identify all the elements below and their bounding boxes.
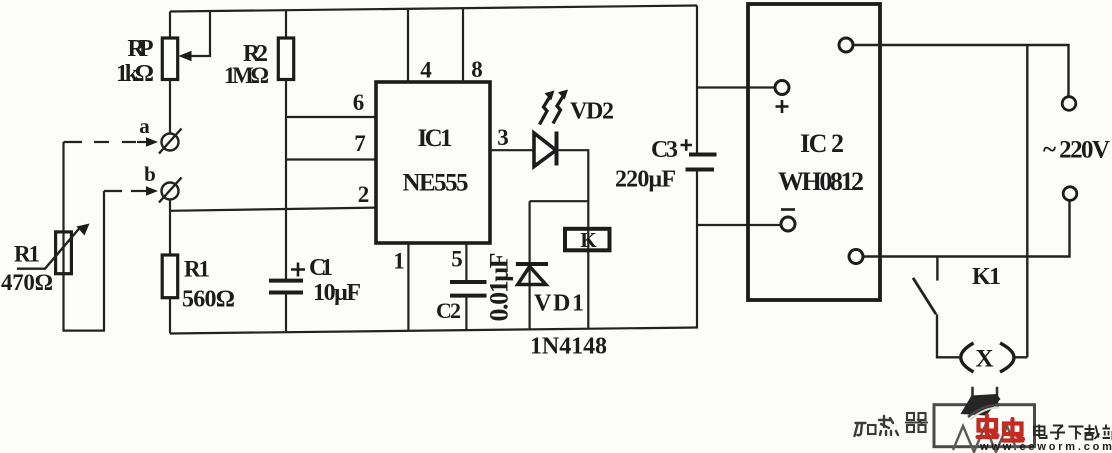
wire: AC top to mains upper — [853, 45, 1069, 97]
wire: VD1 branch top link — [530, 200, 589, 202]
svg-text:7: 7 — [354, 131, 366, 156]
wire: pin 5 — [465, 243, 467, 282]
label + (C3) — [681, 139, 693, 150]
wire: lamp to load branch — [1015, 356, 1027, 358]
capacitor C2 — [450, 282, 487, 331]
svg-text:X: X — [975, 346, 993, 373]
op IC1 NE555 box — [376, 82, 490, 243]
svg-text:K: K — [580, 228, 597, 252]
wire: bottom ground rail — [170, 328, 698, 334]
wire: pin 7 — [286, 158, 376, 160]
svg-text:4: 4 — [420, 58, 432, 83]
watermark 虫虫 — [978, 416, 1024, 441]
wire: R2 bottom to timing node / C1 — [285, 80, 287, 281]
resistor R2 — [278, 10, 293, 79]
svg-text:WH0812: WH0812 — [778, 167, 864, 196]
heater box — [934, 405, 1035, 447]
svg-text:5: 5 — [451, 247, 463, 272]
wire: link to contact b — [104, 190, 147, 192]
svg-text:VD1: VD1 — [534, 291, 584, 317]
capacitor C3 — [686, 6, 717, 328]
wire: pin 6 — [286, 116, 376, 118]
svg-text:C1: C1 — [309, 255, 333, 281]
wire: VD2 cathode down to relay and ground — [557, 150, 589, 329]
LED VD2 — [534, 132, 557, 167]
svg-text:470Ω: 470Ω — [1, 270, 53, 295]
terminal AC top of IC2 — [839, 38, 853, 52]
svg-text:6: 6 — [353, 90, 365, 115]
label 加热器 (heater) — [855, 413, 928, 436]
wire: pin 2 rail — [170, 208, 376, 211]
svg-text:8: 8 — [471, 57, 483, 82]
svg-text:www.eeworm.com: www.eeworm.com — [979, 441, 1112, 453]
LED arrows VD2 — [540, 90, 569, 125]
svg-text:R1: R1 — [14, 242, 40, 267]
wire: load branch vertical — [1026, 45, 1028, 357]
svg-text:1kΩ: 1kΩ — [116, 61, 154, 87]
svg-text:NE555: NE555 — [403, 170, 469, 197]
relay coil K — [565, 229, 610, 251]
wire: K1 to lamp — [937, 314, 959, 357]
svg-text:IC1: IC1 — [418, 125, 453, 152]
op IC2 WH0812 box — [748, 4, 880, 300]
wire: dashed link to contact a — [64, 141, 149, 143]
load lamp (X) — [961, 343, 1014, 372]
wire: C3 node to IC2 plus terminal — [697, 86, 775, 88]
wire: contact b to pin2 rail — [169, 200, 171, 211]
switch contact a — [159, 129, 182, 154]
svg-text:IC 2: IC 2 — [800, 129, 844, 158]
thermistor R1 470Ω with select loop — [17, 142, 104, 331]
heater element zigzag — [953, 426, 1016, 452]
terminal mains upper — [1062, 97, 1076, 111]
svg-text:1: 1 — [393, 249, 405, 274]
label + (C1) — [291, 263, 305, 277]
wire: pin 1 — [407, 243, 409, 331]
heater leads — [973, 387, 998, 405]
diode VD1 — [516, 201, 548, 330]
wire: top supply rail — [170, 6, 697, 12]
wire: pin 4 — [407, 9, 409, 82]
svg-text:a: a — [139, 114, 150, 138]
watermark logo cap — [961, 394, 1001, 416]
wire: C3 node to IC2 minus terminal — [697, 224, 781, 226]
svg-text:C3: C3 — [651, 137, 678, 163]
svg-text:1MΩ: 1MΩ — [224, 63, 269, 88]
terminal − of IC2 — [781, 217, 795, 231]
svg-text:b: b — [144, 162, 156, 186]
terminal mains lower — [1063, 187, 1077, 201]
terminal AC bottom of IC2 — [849, 250, 863, 264]
resistor R1 560Ω — [162, 211, 178, 334]
wire: AC bottom to mains lower — [863, 201, 1070, 257]
relay contact K1 — [913, 257, 937, 315]
svg-text:~ 220V: ~ 220V — [1043, 137, 1110, 164]
svg-text:0.01μF: 0.01μF — [485, 253, 514, 322]
svg-text:10μF: 10μF — [313, 280, 361, 306]
switch contact b — [159, 178, 182, 203]
svg-text:2: 2 — [358, 182, 370, 207]
wire: pin 8 — [462, 8, 464, 82]
wire: pin 3 — [490, 149, 534, 151]
svg-text:VD2: VD2 — [570, 99, 614, 125]
potentiometer RP — [162, 11, 210, 134]
svg-text:1N4148: 1N4148 — [530, 334, 607, 360]
svg-text:C2: C2 — [436, 298, 461, 323]
svg-text:220μF: 220μF — [615, 167, 676, 193]
svg-text:R1: R1 — [184, 257, 210, 282]
svg-text:560Ω: 560Ω — [182, 287, 235, 313]
terminal + of IC2 — [775, 81, 789, 95]
svg-text:K1: K1 — [972, 264, 1001, 290]
watermark 电子下载站 — [1034, 425, 1112, 440]
capacitor C1 — [269, 281, 303, 333]
svg-text:RP: RP — [128, 36, 154, 62]
svg-text:3: 3 — [497, 125, 509, 150]
